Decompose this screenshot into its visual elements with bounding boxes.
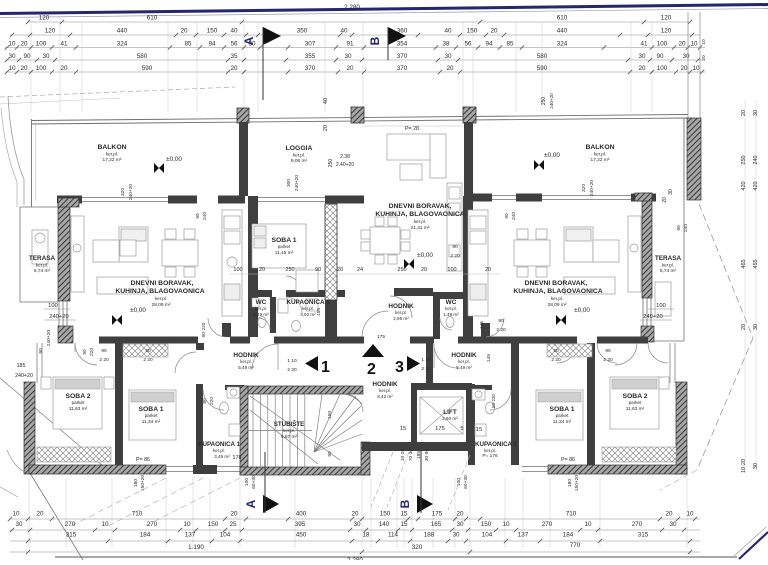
bottom window left	[166, 466, 193, 468]
svg-text:ker.pl.: ker.pl.	[283, 428, 295, 433]
terrace right outline	[683, 200, 685, 341]
svg-text:300: 300	[286, 179, 292, 187]
svg-text:30: 30	[753, 324, 759, 330]
svg-text:90: 90	[101, 348, 107, 354]
svg-text:90·220: 90·220	[201, 322, 207, 337]
dimension extension lines top	[30, 22, 32, 112]
svg-text:240+20: 240+20	[589, 180, 595, 196]
svg-text:KUPAONICA 1: KUPAONICA 1	[286, 299, 330, 306]
svg-text:HODNIK: HODNIK	[372, 381, 398, 388]
svg-text:parket: parket	[629, 400, 642, 405]
svg-text:90: 90	[145, 348, 151, 354]
svg-text:1 10: 1 10	[421, 357, 431, 363]
door right apt soba2	[615, 343, 637, 365]
svg-text:104: 104	[220, 532, 231, 539]
svg-text:28,09 m²: 28,09 m²	[548, 302, 567, 308]
washing machine kupaonica right	[472, 389, 485, 400]
svg-text:20: 20	[259, 267, 265, 273]
bed soba1 right	[536, 390, 583, 440]
svg-text:2.280: 2.280	[344, 4, 360, 11]
svg-text:±0,00: ±0,00	[544, 152, 560, 159]
svg-text:40: 40	[444, 28, 452, 35]
svg-text:580: 580	[537, 53, 548, 60]
svg-text:250: 250	[741, 155, 747, 164]
central dining table	[370, 227, 400, 254]
svg-text:114: 114	[388, 532, 399, 539]
svg-text:90: 90	[605, 348, 611, 354]
door wc left	[258, 318, 270, 330]
svg-text:30: 30	[669, 521, 677, 528]
svg-text:DNEVNI BORAVAK,: DNEVNI BORAVAK,	[525, 280, 588, 287]
svg-text:11,63 m²: 11,63 m²	[626, 406, 645, 412]
svg-text:5,49 m²: 5,49 m²	[238, 365, 254, 370]
svg-text:354: 354	[397, 41, 408, 48]
svg-text:30: 30	[15, 521, 23, 528]
svg-text:85: 85	[506, 41, 514, 48]
svg-text:10: 10	[692, 65, 700, 72]
svg-text:324: 324	[117, 41, 128, 48]
svg-text:455: 455	[753, 259, 759, 268]
hodnik2 divider x433	[433, 292, 440, 339]
svg-text:3,92 m²: 3,92 m²	[300, 312, 316, 317]
bedroom divider wall right (soba1/soba2)	[587, 343, 595, 465]
svg-text:KUHINJA, BLAGOVAONICA: KUHINJA, BLAGOVAONICA	[513, 288, 602, 295]
svg-text:175: 175	[377, 334, 385, 340]
windows top wall	[82, 197, 168, 199]
svg-text:315: 315	[66, 532, 77, 539]
svg-text:P= 28: P= 28	[405, 126, 419, 132]
kitchen counter left	[222, 210, 242, 316]
svg-text:10: 10	[502, 521, 510, 528]
svg-text:250: 250	[328, 159, 334, 168]
svg-text:15: 15	[476, 427, 482, 433]
bed central soba1	[252, 224, 306, 268]
svg-text:30: 30	[344, 53, 352, 60]
balcony left rail	[31, 119, 33, 207]
svg-text:10·20: 10·20	[741, 459, 747, 473]
kupaonica bottom-right fixtures	[486, 402, 495, 414]
svg-text:KUHINJA, BLAGOVAONICA: KUHINJA, BLAGOVAONICA	[115, 288, 204, 295]
svg-text:270: 270	[147, 521, 158, 528]
top right edge verticals	[687, 12, 689, 118]
svg-text:120: 120	[661, 15, 672, 22]
svg-text:90: 90	[315, 267, 321, 273]
svg-text:1,49 m²: 1,49 m²	[253, 312, 269, 317]
svg-text:parket: parket	[556, 413, 569, 418]
svg-text:710: 710	[566, 511, 577, 518]
svg-text:80·220: 80·220	[491, 394, 496, 408]
door kupaonica left	[286, 297, 302, 313]
svg-text:A: A	[242, 36, 256, 45]
svg-text:9,87 m²: 9,87 m²	[281, 434, 298, 440]
wall balkon-loggia divider left	[239, 122, 248, 196]
svg-text:150: 150	[481, 521, 492, 528]
svg-text:270: 270	[632, 521, 643, 528]
svg-text:10·20: 10·20	[400, 449, 406, 462]
top wall y196 segments	[57, 196, 82, 204]
svg-text:2,95 m²: 2,95 m²	[393, 316, 409, 321]
svg-text:ker.pl.: ker.pl.	[484, 448, 496, 453]
central living furniture	[387, 134, 434, 160]
svg-text:38: 38	[442, 41, 450, 48]
central kitchen counter	[447, 183, 462, 271]
svg-text:710: 710	[132, 511, 143, 518]
washing machine kupaonica left	[227, 387, 240, 398]
svg-text:250: 250	[285, 267, 294, 273]
svg-text:90: 90	[38, 348, 44, 354]
svg-text:440: 440	[117, 28, 128, 35]
top dimension lines	[28, 21, 690, 23]
svg-text:SOBA 1: SOBA 1	[138, 406, 163, 413]
svg-text:SOBA 1: SOBA 1	[549, 406, 574, 413]
kitchen wall stub left	[222, 323, 231, 337]
svg-text:20: 20	[36, 511, 44, 518]
svg-text:LIFT: LIFT	[443, 409, 457, 416]
svg-text:370: 370	[397, 53, 408, 60]
bed soba2 left	[53, 377, 102, 429]
site line left slant	[0, 87, 235, 97]
svg-text:11,34 m²: 11,34 m²	[553, 419, 572, 425]
svg-text:250: 250	[541, 97, 547, 106]
svg-text:220: 220	[89, 348, 95, 356]
closet soba2 left	[37, 447, 111, 462]
column P2	[351, 107, 364, 123]
svg-text:240: 240	[511, 212, 517, 220]
svg-text:120: 120	[39, 15, 50, 22]
svg-text:TERASA: TERASA	[655, 255, 682, 262]
svg-text:2 20: 2 20	[603, 357, 613, 363]
svg-text:2.38: 2.38	[340, 154, 350, 160]
svg-text:90: 90	[498, 318, 504, 324]
svg-text:41: 41	[60, 41, 68, 48]
svg-text:220: 220	[209, 397, 215, 405]
sideboard left living	[71, 216, 84, 292]
svg-text:100: 100	[48, 303, 58, 309]
svg-text:20: 20	[741, 324, 747, 330]
bottom wall left apt	[29, 465, 166, 474]
road corner diagonal bottom-right navy	[739, 532, 768, 559]
door wc right	[440, 318, 452, 330]
svg-text:ker.pl.: ker.pl.	[594, 152, 606, 157]
svg-text:420: 420	[753, 181, 759, 190]
svg-text:P= 86: P= 86	[561, 457, 575, 463]
closet soba1 left	[123, 344, 168, 357]
svg-text:20: 20	[638, 65, 646, 72]
svg-text:150: 150	[380, 511, 391, 518]
bedroom divider wall right (hodnik/soba1)	[511, 343, 519, 465]
lift walls	[411, 383, 472, 390]
svg-text:ker.pl.: ker.pl.	[293, 153, 305, 158]
svg-text:250: 250	[397, 267, 406, 273]
kitchen wall stub right	[481, 323, 490, 337]
door stairs	[345, 394, 363, 412]
svg-text:BALKON: BALKON	[585, 144, 614, 151]
svg-text:20: 20	[230, 65, 238, 72]
svg-text:60+30: 60+30	[463, 475, 469, 489]
wall right apt / central (x463)	[463, 196, 473, 342]
section marker A bottom	[244, 452, 279, 513]
svg-text:90: 90	[656, 53, 664, 60]
svg-text:±0,00: ±0,00	[574, 307, 590, 314]
svg-text:20: 20	[346, 65, 354, 72]
svg-text:56: 56	[464, 41, 472, 48]
entrance door 1	[252, 344, 278, 370]
bottom window right	[522, 466, 548, 468]
svg-text:465: 465	[741, 259, 747, 268]
svg-text:175: 175	[432, 511, 443, 518]
svg-text:HODNIK: HODNIK	[388, 303, 414, 310]
column P1	[237, 108, 249, 123]
svg-text:ker.pl.: ker.pl.	[445, 306, 457, 311]
svg-text:ker.pl.: ker.pl.	[414, 219, 426, 224]
bedroom divider wall left (soba1/hodnik) top stub	[196, 343, 204, 350]
svg-text:90: 90	[452, 244, 458, 250]
bed soba1 left	[129, 390, 176, 440]
svg-text:2,60 m²: 2,60 m²	[442, 416, 458, 421]
svg-text:30: 30	[753, 463, 759, 469]
svg-text:240: 240	[202, 212, 208, 220]
svg-text:610: 610	[147, 15, 158, 22]
svg-text:188: 188	[424, 532, 435, 539]
svg-text:90: 90	[82, 349, 88, 355]
svg-text:STUBIŠTE: STUBIŠTE	[274, 420, 305, 428]
svg-text:20: 20	[180, 28, 188, 35]
left outer wall bedrooms	[24, 382, 35, 474]
svg-text:240+20: 240+20	[15, 373, 33, 379]
entrance door 3	[434, 344, 458, 368]
svg-text:30: 30	[682, 53, 690, 60]
staircase treads	[248, 394, 362, 467]
svg-text:25: 25	[229, 521, 237, 528]
svg-text:580: 580	[137, 53, 148, 60]
svg-text:315: 315	[638, 532, 649, 539]
svg-text:10: 10	[686, 511, 694, 518]
svg-text:10: 10	[12, 511, 20, 518]
svg-text:240+20: 240+20	[46, 330, 52, 346]
door kupaonica right arc	[490, 389, 511, 410]
svg-text:B: B	[398, 499, 412, 508]
site dashed boundary right	[699, 204, 753, 338]
door soba1 left from hodnik	[175, 352, 196, 373]
svg-text:165: 165	[431, 521, 442, 528]
boundary lines west facade	[36, 343, 38, 383]
sideboard right living	[628, 216, 641, 292]
door soba1 central	[286, 276, 300, 290]
svg-text:1.190: 1.190	[188, 544, 204, 551]
svg-text:2.40+20: 2.40+20	[336, 162, 354, 168]
sofa left living	[119, 227, 148, 262]
svg-text:41: 41	[640, 41, 648, 48]
svg-text:150: 150	[207, 28, 218, 35]
svg-text:HODNIK: HODNIK	[451, 352, 477, 359]
svg-text:180: 180	[133, 479, 139, 487]
svg-text:20: 20	[456, 511, 464, 518]
svg-text:B: B	[368, 36, 382, 45]
svg-text:WC: WC	[446, 299, 457, 306]
bedroom divider wall left (soba2/soba1)	[115, 343, 123, 465]
entrance marker 1	[305, 356, 318, 371]
central strip top wall y290	[258, 290, 272, 297]
sofa right living	[564, 227, 593, 262]
svg-text:370: 370	[305, 65, 316, 72]
svg-text:1,49 m²: 1,49 m²	[443, 312, 459, 317]
svg-text:100: 100	[656, 303, 666, 309]
svg-text:90: 90	[504, 213, 510, 219]
svg-text:18: 18	[362, 532, 370, 539]
svg-text:TERASA: TERASA	[29, 255, 56, 262]
svg-text:ker.pl.: ker.pl.	[255, 306, 267, 311]
door hodnik2/living	[390, 296, 412, 318]
svg-text:324: 324	[557, 41, 568, 48]
right outer wall bedrooms	[676, 382, 687, 474]
svg-text:ker.pl.: ker.pl.	[551, 296, 563, 301]
bed soba2 right	[610, 377, 659, 429]
svg-text:2 20: 2 20	[99, 357, 109, 363]
svg-text:60+30: 60+30	[251, 475, 257, 489]
entrance door 2	[362, 311, 388, 337]
svg-text:ker.pl.: ker.pl.	[395, 310, 407, 315]
section marker A top	[242, 27, 281, 100]
kitchen counter right	[468, 210, 488, 316]
svg-text:SOBA 1: SOBA 1	[271, 237, 296, 244]
window left below terrace	[58, 301, 60, 337]
bottom extension verticals	[28, 478, 30, 548]
svg-text:DNEVNI BORAVAK,: DNEVNI BORAVAK,	[131, 280, 194, 287]
svg-text:610: 610	[557, 15, 568, 22]
svg-text:10: 10	[8, 65, 16, 72]
svg-text:20: 20	[485, 267, 491, 273]
svg-text:±0,00: ±0,00	[166, 156, 182, 163]
svg-text:5,74 m²: 5,74 m²	[34, 268, 51, 274]
svg-text:450: 450	[296, 532, 307, 539]
lounger terasa right	[655, 282, 671, 316]
svg-text:10: 10	[690, 41, 698, 48]
right balcony end wall	[687, 118, 701, 200]
svg-text:2 20: 2 20	[551, 357, 561, 363]
wall left apt / central (x248)	[248, 196, 258, 337]
doors right apartment bedrooms	[597, 343, 617, 363]
dining table left	[162, 240, 198, 266]
svg-text:145: 145	[486, 354, 492, 362]
svg-text:35: 35	[230, 53, 238, 60]
svg-text:90: 90	[553, 348, 559, 354]
svg-text:1: 1	[321, 359, 330, 376]
svg-text:ker.pl.: ker.pl.	[36, 263, 48, 268]
svg-text:HODNIK: HODNIK	[233, 352, 259, 359]
svg-text:150: 150	[208, 521, 219, 528]
wc divider left	[270, 297, 276, 333]
svg-text:P= 176: P= 176	[482, 453, 498, 459]
svg-text:420: 420	[741, 181, 747, 190]
balcony top edge rail	[31, 115, 688, 121]
wall stub terasa bottom left	[58, 326, 73, 343]
svg-text:17,22 m²: 17,22 m²	[591, 157, 610, 163]
svg-text:155: 155	[316, 308, 322, 316]
road edge bottom	[55, 556, 737, 558]
svg-text:160: 160	[327, 411, 333, 419]
svg-text:30: 30	[456, 521, 464, 528]
svg-text:150+20: 150+20	[574, 475, 580, 491]
svg-text:240+20: 240+20	[49, 314, 69, 320]
svg-text:770: 770	[570, 542, 581, 549]
svg-text:440: 440	[557, 28, 568, 35]
svg-text:15: 15	[400, 426, 406, 432]
svg-text:180: 180	[567, 479, 573, 487]
svg-text:370: 370	[397, 65, 408, 72]
svg-text:parket: parket	[278, 244, 291, 249]
svg-text:2 20: 2 20	[496, 327, 506, 333]
lift interior	[420, 397, 463, 434]
svg-text:2 20: 2 20	[450, 253, 460, 259]
terrace wall left	[58, 198, 70, 301]
central shaft wall x325	[325, 204, 337, 300]
wc fixtures	[258, 317, 266, 328]
svg-text:94: 94	[208, 41, 216, 48]
svg-text:56: 56	[230, 41, 238, 48]
svg-text:270: 270	[542, 521, 553, 528]
svg-text:137: 137	[518, 532, 529, 539]
svg-text:270: 270	[65, 521, 76, 528]
coffee table left	[120, 240, 136, 256]
door living-soba2 left	[75, 343, 97, 365]
svg-text:70·30: 70·30	[408, 449, 414, 462]
svg-text:10: 10	[701, 39, 707, 45]
svg-text:28,09 m²: 28,09 m²	[152, 302, 171, 308]
svg-text:20: 20	[323, 125, 329, 131]
svg-text:184: 184	[563, 532, 574, 539]
hodnik2 left wall x337	[337, 290, 345, 297]
svg-text:30: 30	[8, 53, 16, 60]
closet soba1 right	[547, 344, 592, 357]
svg-text:ker.pl.: ker.pl.	[302, 306, 314, 311]
hodnik right apt wall x426	[426, 337, 433, 387]
site diagonal bottom-left	[0, 378, 110, 472]
svg-text:KUPAONICA 1: KUPAONICA 1	[475, 441, 517, 448]
svg-text:SOBA 2: SOBA 2	[65, 393, 90, 400]
svg-text:100: 100	[456, 478, 462, 486]
svg-text:20: 20	[60, 65, 68, 72]
svg-text:20: 20	[20, 41, 28, 48]
svg-text:20: 20	[446, 65, 454, 72]
svg-text:ker.pl.: ker.pl.	[155, 296, 167, 301]
lounger terasa left	[32, 230, 48, 264]
svg-text:20: 20	[741, 110, 747, 116]
svg-text:15: 15	[400, 521, 408, 528]
svg-text:100: 100	[447, 267, 456, 273]
svg-text:5,74 m²: 5,74 m²	[660, 268, 677, 274]
svg-text:ker.pl.: ker.pl.	[213, 448, 225, 453]
svg-text:175: 175	[435, 426, 445, 432]
svg-text:10: 10	[8, 41, 16, 48]
svg-text:40: 40	[323, 98, 329, 104]
svg-text:20: 20	[701, 55, 707, 61]
svg-text:30: 30	[638, 53, 646, 60]
svg-text:30: 30	[42, 53, 50, 60]
svg-text:94: 94	[485, 41, 493, 48]
svg-text:40: 40	[230, 28, 238, 35]
svg-text:11,63 m²: 11,63 m²	[69, 406, 88, 412]
svg-text:176: 176	[232, 455, 241, 461]
svg-text:ker.pl.: ker.pl.	[662, 263, 674, 268]
svg-text:240: 240	[683, 224, 689, 232]
bottom dashed leaders	[108, 478, 203, 526]
svg-text:100: 100	[36, 65, 47, 72]
svg-text:90: 90	[195, 213, 201, 219]
svg-text:320: 320	[412, 544, 423, 551]
svg-text:150: 150	[467, 28, 478, 35]
svg-text:20: 20	[678, 41, 686, 48]
right edge dimension column	[744, 100, 746, 470]
